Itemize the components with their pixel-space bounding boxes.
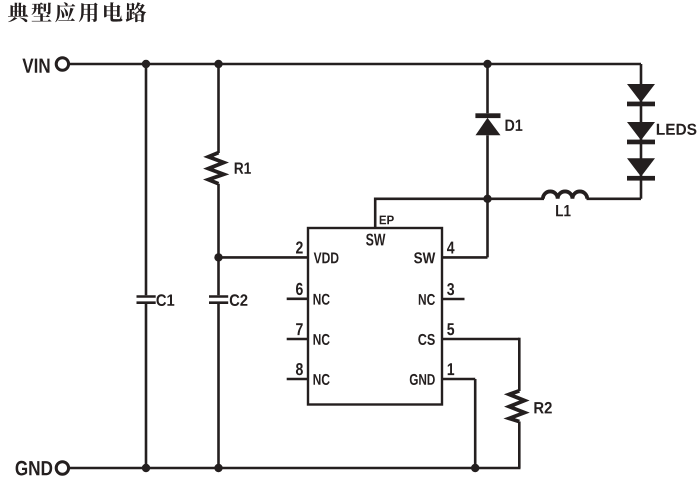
wire pin2 VDD stub xyxy=(219,256,309,259)
resistor R2 xyxy=(509,391,552,422)
wire top rail from VIN xyxy=(69,63,641,66)
wire D1 lower / pin4 vertical xyxy=(486,135,489,257)
node junction top rail / D1 xyxy=(483,60,491,68)
wire CS-to-R2 vertical xyxy=(518,338,521,391)
pin name VDD (pin 2) xyxy=(314,253,339,264)
pin name NC (pin 3) xyxy=(419,294,435,305)
pin label EP xyxy=(380,216,394,225)
pin number 7 xyxy=(296,323,303,335)
LED D2 (top of LEDS string) xyxy=(627,84,655,106)
capacitor C1 xyxy=(137,294,175,306)
wire SW rail left of L1 xyxy=(374,198,544,201)
wire SW rail right of L1 xyxy=(587,198,642,201)
pin number 1 xyxy=(448,363,455,375)
pin number 3 xyxy=(447,283,454,295)
IC U1 body xyxy=(308,228,442,405)
pin name NC (pin 6) xyxy=(314,294,330,305)
LED D3 (middle of LEDS string) xyxy=(627,122,655,144)
pin name NC (pin 8) xyxy=(314,374,330,385)
terminal GND xyxy=(16,461,69,476)
resistor R1 xyxy=(208,153,251,184)
pin name CS (pin 5) xyxy=(418,334,435,345)
terminal VIN xyxy=(22,58,68,73)
node junction bottom rail / C1 xyxy=(142,464,150,472)
wire C1 branch lower vertical xyxy=(145,304,148,468)
pin number 5 xyxy=(447,323,454,335)
node junction top rail / C1 xyxy=(142,60,150,68)
title 典型应用电路 xyxy=(8,2,146,22)
node junction bottom rail / C2 xyxy=(214,464,222,472)
node junction SW rail / D1 xyxy=(483,195,491,203)
wire C2 lower vertical xyxy=(217,304,220,468)
wire bottom rail to GND xyxy=(69,467,521,470)
pin number 2 xyxy=(296,241,303,253)
pin name GND (pin 1) xyxy=(410,374,435,385)
inductor L1 xyxy=(543,191,587,216)
pin name SW (pin 4) xyxy=(414,252,435,263)
pin number 8 xyxy=(296,363,303,375)
wire pin3 stub xyxy=(442,298,465,301)
wire LED string vertical xyxy=(640,64,643,199)
wire R1 upper vertical xyxy=(217,64,220,153)
node junction bottom rail / pin1 xyxy=(471,464,479,472)
LED D4 (bottom of LEDS string) xyxy=(627,158,655,180)
wire pin5 CS horizontal xyxy=(442,338,519,341)
wire EP vertical xyxy=(374,198,377,229)
wire D1 upper vertical xyxy=(486,64,489,113)
wire pin1 GND stub xyxy=(442,378,475,381)
wire pin4 SW stub xyxy=(442,256,488,259)
node junction top rail / R1 xyxy=(214,60,222,68)
wire pin6 stub xyxy=(287,297,308,300)
wire pin1 vertical xyxy=(474,379,477,468)
diode D1 xyxy=(475,113,522,135)
pin number 6 xyxy=(296,283,303,295)
capacitor C2 xyxy=(209,294,247,306)
pin number 4 xyxy=(447,242,455,254)
net label LEDS xyxy=(657,124,697,135)
wire C1 branch upper vertical xyxy=(145,64,148,295)
pin name NC (pin 7) xyxy=(314,334,330,345)
pin label SW (top, exposed pad net) xyxy=(366,234,385,246)
wire R2 lower vertical xyxy=(518,422,521,469)
wire pin8 stub xyxy=(287,378,308,381)
node junction VDD / C2 xyxy=(214,253,222,261)
wire pin7 stub xyxy=(287,338,308,341)
wire R1-to-C2 vertical xyxy=(217,184,220,295)
